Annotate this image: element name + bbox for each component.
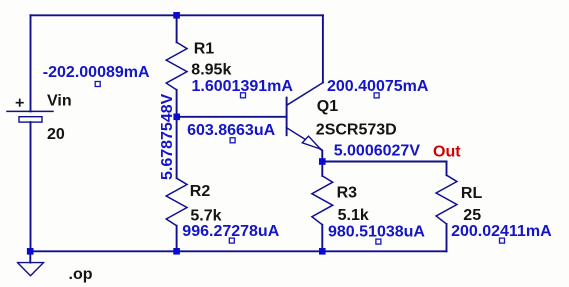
wire R2 bottom lead <box>176 226 178 252</box>
marker anchor 996.27278uA <box>229 238 234 243</box>
wire R1 bottom to base node <box>176 90 178 117</box>
wire RL top lead <box>446 162 448 176</box>
svg-text:Q1: Q1 <box>317 98 338 115</box>
svg-text:603.8663uA: 603.8663uA <box>187 122 276 139</box>
svg-text:5.6787548V: 5.6787548V <box>159 93 176 180</box>
svg-text:R1: R1 <box>194 40 215 57</box>
svg-text:25: 25 <box>463 207 481 224</box>
marker anchor 980.51038uA <box>376 239 381 244</box>
svg-text:980.51038uA: 980.51038uA <box>328 224 425 241</box>
wire emitter rail to RL <box>322 161 446 163</box>
wire base node to R2 <box>176 117 178 178</box>
svg-text:R3: R3 <box>337 184 358 201</box>
svg-text:5.7k: 5.7k <box>190 207 221 224</box>
svg-text:8.95k: 8.95k <box>191 62 231 79</box>
svg-text:R2: R2 <box>190 183 211 200</box>
wire left vertical (Vin top lead) <box>30 15 32 111</box>
junction top rail / R1 <box>173 12 180 19</box>
svg-text:.op: .op <box>69 266 93 283</box>
wire bottom rail <box>31 250 447 252</box>
svg-text:5.1k: 5.1k <box>338 207 369 224</box>
junction base node <box>173 114 180 121</box>
junction R2 bottom <box>173 248 180 255</box>
wire Vin bottom lead <box>30 122 32 251</box>
resistor R3 <box>312 176 333 225</box>
transistor Q1 <box>287 83 323 162</box>
wire RL bottom lead <box>446 224 448 251</box>
wire top rail <box>31 14 324 16</box>
svg-text:-202.00089mA: -202.00089mA <box>43 64 150 81</box>
svg-text:5.0006027V: 5.0006027V <box>334 142 421 159</box>
wire R3 top lead <box>321 162 323 176</box>
resistor RL <box>436 175 457 224</box>
wire base <box>177 116 287 118</box>
marker anchor 200.02411mA <box>500 238 505 243</box>
svg-text:RL: RL <box>461 185 483 202</box>
junction ground node <box>27 248 34 255</box>
wire collector vertical <box>322 15 324 82</box>
svg-text:996.27278uA: 996.27278uA <box>182 223 279 240</box>
svg-text:20: 20 <box>47 126 65 143</box>
wire R1 top lead <box>176 15 178 42</box>
ground <box>18 251 44 275</box>
svg-text:200.40075mA: 200.40075mA <box>327 78 429 95</box>
junction R3 bottom <box>319 248 326 255</box>
marker anchor 603.8663uA <box>230 138 235 143</box>
resistor R2 <box>166 178 187 226</box>
marker anchor 1.6001391mA <box>241 93 246 98</box>
junction emitter node <box>319 158 326 165</box>
svg-text:1.6001391mA: 1.6001391mA <box>192 78 294 95</box>
svg-text:2SCR573D: 2SCR573D <box>316 122 397 139</box>
resistor R1 <box>166 42 187 90</box>
svg-text:Vin: Vin <box>47 93 72 110</box>
marker anchor -202.00089mA <box>95 82 100 87</box>
voltage source Vin battery symbol <box>7 100 53 123</box>
svg-text:Out: Out <box>433 143 461 160</box>
marker anchor 200.40075mA <box>374 93 379 98</box>
wire R3 bottom lead <box>321 225 323 252</box>
svg-text:200.02411mA: 200.02411mA <box>451 223 552 240</box>
